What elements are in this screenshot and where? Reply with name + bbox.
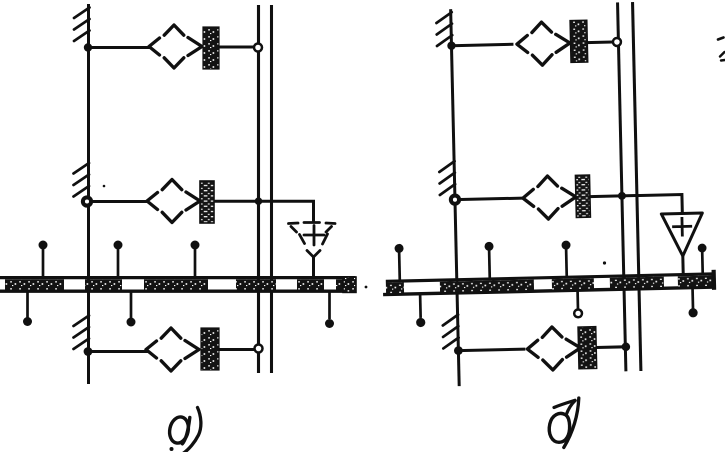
stippled electrode block E5 [575,175,590,217]
wire row1 right to Y3 [586,41,612,45]
wire U1 output to bus [312,257,315,278]
bus (left) right end cap [343,277,356,292]
crosspoint contact K2: dashed diamond [162,180,182,223]
input pin 3 above bus (left) [194,249,197,279]
hatch marks bottom of X1 [74,316,90,350]
bus (left) bottom line [0,290,356,293]
right chevron of K3 [185,341,199,359]
stray dot under label a) [170,447,174,451]
right chevron of K2 [186,192,200,210]
open contact circle row1 on Y1 [254,44,262,52]
bus (left) stippled segment 3 [144,279,208,289]
wire row1 right [451,44,513,45]
wire U2 output to bus [681,256,684,275]
bus (right) stippled segment 4 [610,277,664,289]
stippled electrode block E2 [200,181,214,223]
bus (right) stippled segment 3 [552,278,594,289]
crosspoint contact K6: dashed diamond [542,327,563,370]
bus (right) stippled segment 5 [678,276,714,287]
edge mark top right 1 [718,38,724,40]
indicator amplifier U1 (dashed triangle with +) [289,223,336,258]
right chevron of K4 [556,34,570,52]
right chevron of K6 [566,339,580,357]
junction dot row2 on Y3 [618,192,626,200]
right chevron of K1 [188,38,202,56]
vertical bus line Y1 (left diagram) [257,5,260,373]
bus (right) bottom line [383,287,715,295]
bus (left) stippled segment 5 [297,279,324,289]
wire row2 left to amplifier [214,201,314,222]
output pin 2 below bus (right, open circle) [576,290,579,309]
vertical bus line Y3 (right diagram) [618,2,626,371]
edge mark top right 2 [720,52,725,61]
crosspoint contact K1: dashed diamond [164,25,184,68]
hatch marks middle of X1 [74,163,90,197]
vertical selection line X2 (right diagram) [451,9,460,386]
stippled electrode block E3 [201,328,219,370]
node row3 on X1 (filled) [84,347,93,356]
output pin 1 below bus (right) [419,294,422,318]
bus (left) stippled segment 4 [236,279,276,289]
wire row2 left [87,200,149,203]
bus (right) stippled segment 1 [386,283,404,294]
input pin 3 above bus (right) [565,249,568,278]
node row2 on X2 (ring) [451,195,459,203]
input pin 1 above bus (left) [42,249,45,279]
wire row1 left to Y1 [219,46,254,49]
horizontal multiple-wire bus (right diagram) top line [386,274,715,281]
right chevron of K5 [562,188,576,206]
wire row1 left [88,46,150,49]
output pin 1 below bus (left) [26,292,29,318]
node row2 on X1 (ring) [83,197,91,205]
stippled electrode block E4 [570,20,588,62]
horizontal multiple-wire bus (left diagram) top line [0,276,356,279]
bus (left) stippled segment 2 [85,279,122,289]
plus sign inside U2 [672,217,692,237]
left chevron of K6 [527,340,538,357]
crosspoint contact K3: dashed diamond [161,328,181,371]
wire row3 right [458,349,525,351]
hatch marks top of X2 [436,12,452,46]
bus (left) stippled segment 6 [336,279,356,289]
stippled electrode block E1 [203,27,219,69]
open contact circle row1 on Y3 [613,38,621,46]
pin with dot right of U2 [701,252,704,275]
label b) [549,413,569,442]
left chevron of K1 [149,38,160,55]
input pin 1 above bus (right) [398,252,401,281]
vertical bus line Y4 (right diagram) [633,2,641,371]
hatch marks top of X1 [74,8,90,42]
wire row2 right [455,198,523,200]
wire row3 left [88,350,148,353]
wire row2 right to amplifier U2 [590,195,682,217]
vertical bus line Y2 (left diagram) [270,5,273,373]
left chevron of K4 [517,35,528,52]
bus (right) stippled segment 2 [440,280,534,293]
input pin 2 above bus (right) [488,250,491,279]
input pin 2 above bus (left) [117,249,120,279]
crosspoint contact K4: dashed diamond [532,22,553,65]
open contact circle row3 on Y1 [255,345,263,353]
node row1 on X2 (filled) [447,41,456,50]
left chevron of K5 [523,189,534,206]
junction dot row3 on Y3 [621,342,630,351]
output pin 3 below bus (left) [328,292,331,320]
wire row3 left to Y1 [219,348,254,351]
node row1 on X1 (filled) [84,43,92,51]
left chevron of K3 [146,341,157,358]
hatch marks middle of X2 [439,161,455,195]
crosspoint contact K5: dashed diamond [538,176,559,219]
output pin 2 below bus (left) [130,292,133,319]
right diagram group (slight scan rotation) [377,0,718,387]
output pin 3 below bus (right) [691,288,694,309]
vertical selection line X1 (left diagram) [87,4,90,384]
amplifier U2 (solid triangle with +) [661,213,703,256]
junction dot row2 on Y1 [255,197,263,205]
bus (right) right end cap [712,270,717,290]
node row3 on X2 (filled) [454,346,463,355]
left chevron of K2 [147,193,158,210]
wire row3 right to Y3 [596,345,625,349]
stippled electrode block E6 [578,326,597,368]
label a) [167,415,190,445]
hatch marks bottom of X2 [443,315,459,349]
bus (left) stippled segment 1 [5,279,64,289]
